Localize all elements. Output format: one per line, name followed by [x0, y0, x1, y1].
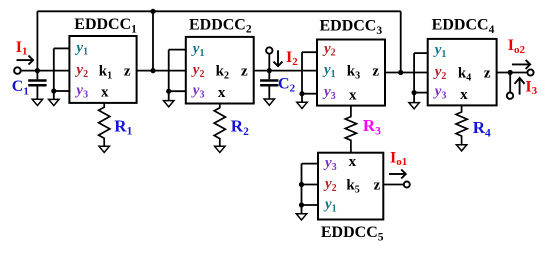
node tie junction at y3 stub of EDDCC1: [51, 88, 56, 93]
wire ground tie vertical of EDDCC5: [301, 164, 303, 214]
svg-text:EDDCC2: EDDCC2: [189, 16, 252, 35]
arrow I2 current direction: [277, 50, 279, 65]
wire ground tie vertical of EDDCC2: [168, 50, 170, 101]
wire y2 stub of EDDCC5: [302, 184, 319, 186]
wire y3 stub of EDDCC5 to ground tie: [302, 163, 319, 165]
svg-text:z: z: [374, 178, 381, 194]
wire y3 stub of EDDCC1: [54, 90, 70, 92]
wire z4 to output terminal Io2: [497, 72, 528, 74]
svg-text:x: x: [218, 85, 226, 101]
wire top feedback from z3 node to input node: [37, 10, 400, 12]
node tie junction at y3 stub of EDDCC3: [299, 91, 304, 96]
resistor R2: [214, 104, 225, 147]
arrow I1 current direction: [17, 59, 32, 61]
ground for unused y inputs of EDDCC4: [409, 103, 419, 109]
wire y1 stub of EDDCC4 to ground tie: [414, 52, 428, 54]
svg-text:x: x: [349, 87, 357, 103]
node junction on top feedback wire: [150, 9, 155, 14]
ground below R2: [215, 146, 225, 152]
wire y2 stub of EDDCC3 to ground tie: [302, 51, 317, 53]
arrow I3 current direction: [519, 79, 521, 95]
wire y1 stub of EDDCC1 to ground tie: [54, 47, 70, 49]
ground for unused y inputs of EDDCC1: [49, 99, 59, 105]
svg-text:x: x: [349, 154, 357, 170]
output terminal Io1: [404, 182, 410, 188]
EDDCC2 block box: [186, 37, 254, 104]
EDDCC5 block box: [318, 153, 383, 220]
wire ground tie vertical of EDDCC1: [53, 48, 55, 99]
wire I2 terminal down to z2 node: [268, 54, 270, 71]
node tie junction at y3 stub of EDDCC4: [412, 90, 417, 95]
node tie junction at y3 stub of EDDCC2: [166, 89, 171, 94]
svg-text:EDDCC3: EDDCC3: [319, 18, 382, 37]
EDDCC3 block box: [317, 40, 385, 106]
wire y3 stub of EDDCC4: [414, 92, 428, 94]
node input junction with C1 and feedback: [35, 68, 40, 73]
node tie junction at y2 stub of EDDCC5: [299, 182, 304, 187]
node tie junction at y1 stub of EDDCC5: [299, 202, 304, 207]
arrow Io1 current direction: [389, 173, 405, 175]
wire input terminal to y2 of EDDCC1: [21, 70, 70, 72]
wire z1 to y2 of EDDCC2: [137, 70, 186, 72]
ground for y inputs of EDDCC5: [296, 214, 306, 220]
wire vertical from top wire down to z3 node: [400, 11, 402, 72]
svg-text:z: z: [124, 64, 131, 80]
ground below C1: [32, 99, 42, 105]
capacitor C1: [36, 71, 38, 80]
svg-text:x: x: [460, 87, 468, 103]
ground below R1: [99, 146, 109, 152]
input terminal I1: [14, 67, 21, 74]
wire y3 stub of EDDCC2: [169, 90, 186, 92]
EDDCC4 block box: [428, 39, 497, 106]
wire z3 to y2 of EDDCC4: [385, 72, 428, 74]
svg-text:z: z: [372, 64, 379, 80]
wire y1 stub of EDDCC5: [302, 204, 319, 206]
wire y3 stub of EDDCC3: [302, 93, 317, 95]
wire ground tie vertical of EDDCC4: [413, 53, 415, 103]
input terminal I3: [507, 93, 513, 99]
ground below R4: [456, 145, 466, 151]
svg-text:z: z: [241, 64, 248, 80]
wire y1 stub of EDDCC2 to ground tie: [169, 49, 186, 51]
ground for unused y inputs of EDDCC3: [297, 102, 307, 108]
output terminal Io2: [527, 69, 533, 75]
node C2 junction: [267, 68, 272, 73]
wire ground tie vertical of EDDCC3: [301, 52, 303, 102]
input terminal I2: [266, 47, 272, 53]
svg-text:EDDCC5: EDDCC5: [321, 224, 384, 243]
wire vertical from top wire down to z1 node: [152, 11, 154, 70]
EDDCC1 block box: [69, 36, 136, 103]
arrow Io2 current direction: [512, 63, 529, 65]
svg-text:EDDCC1: EDDCC1: [74, 16, 137, 35]
resistor R1: [99, 103, 110, 146]
wire z2 to y1 of EDDCC3: [254, 70, 317, 72]
svg-text:z: z: [484, 66, 491, 82]
wire z4 node down to I3 terminal: [509, 73, 511, 93]
capacitor C2: [268, 71, 270, 80]
ground below C2: [264, 99, 274, 105]
wire vertical from top wire down to input node: [36, 11, 38, 70]
svg-text:x: x: [101, 85, 109, 101]
wire z5 to output terminal Io1: [383, 184, 404, 186]
node z3 feedback junction: [398, 70, 403, 75]
node z4 output junction: [508, 70, 513, 75]
ground for unused y inputs of EDDCC2: [164, 101, 174, 107]
svg-text:EDDCC4: EDDCC4: [432, 16, 495, 35]
resistor R3 from x of EDDCC3 to x of EDDCC5: [345, 106, 356, 153]
node z1 feedback junction: [150, 68, 155, 73]
resistor R4: [456, 105, 467, 144]
